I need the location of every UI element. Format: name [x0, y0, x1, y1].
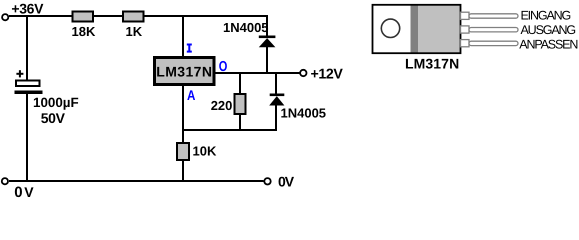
resistor R1 18K	[73, 12, 94, 22]
wire ground rail 0V	[9, 180, 264, 182]
svg-text:ANPASSEN: ANPASSEN	[519, 38, 578, 52]
svg-text:0V: 0V	[278, 174, 295, 190]
terminal 0V left	[2, 178, 8, 184]
svg-text:1N4005: 1N4005	[281, 106, 327, 121]
svg-text:10K: 10K	[193, 144, 217, 159]
TO-220 mounting hole	[381, 19, 399, 37]
op-amp U1 LM317N body	[155, 58, 215, 85]
svg-text:A: A	[187, 87, 195, 103]
wire branch to capacitor C1	[26, 15, 28, 80]
pin label I	[187, 44, 192, 53]
terminal +36V	[2, 14, 8, 20]
resistor R3 220	[235, 94, 246, 114]
svg-text:1000µF: 1000µF	[33, 95, 79, 110]
resistor R2 1K	[123, 12, 144, 22]
wire output rail +12V	[216, 72, 301, 74]
wire resistor R4 to ground rail	[182, 160, 184, 182]
svg-text:18K: 18K	[72, 24, 96, 39]
svg-text:LM317N: LM317N	[405, 55, 459, 71]
TO-220 package dark stripe	[411, 5, 419, 53]
TO-220 package outline	[373, 5, 461, 53]
capacitor C1 plus sign	[16, 70, 23, 77]
wire adjust rail	[182, 129, 277, 131]
wire top rail +36V	[9, 15, 268, 17]
wire branch to diode D2	[275, 72, 277, 94]
resistor R4 10K	[177, 143, 189, 160]
wire input to U1	[182, 15, 184, 57]
svg-text:EINGANG: EINGANG	[521, 9, 571, 23]
svg-text:1K: 1K	[126, 24, 143, 39]
svg-text:220: 220	[211, 98, 233, 113]
wire capacitor C1 to ground rail	[26, 94, 28, 181]
capacitor C1 bottom plate	[15, 91, 43, 95]
wire corner down to diode D1	[266, 15, 268, 36]
diode D2 1N4005	[269, 94, 284, 106]
svg-text:LM317N: LM317N	[156, 64, 212, 80]
TO-220 package gray body	[418, 5, 460, 53]
svg-text:1N4005: 1N4005	[223, 20, 269, 35]
TO-220 package body white tab	[373, 5, 461, 53]
wire diode D1 to output rail	[266, 47, 268, 74]
svg-text:+36V: +36V	[11, 0, 44, 16]
svg-text:50V: 50V	[41, 110, 66, 126]
terminal +12V	[300, 70, 306, 76]
wire U1 adjust pin down	[182, 85, 184, 143]
wire branch to resistor R3 220	[239, 72, 241, 94]
diode D1 1N4005	[259, 36, 276, 48]
svg-text:0: 0	[14, 184, 22, 198]
pin 1 EINGANG	[461, 12, 519, 19]
wire resistor R3 to adjust rail	[239, 114, 241, 131]
svg-text:AUSGANG: AUSGANG	[521, 23, 576, 37]
terminal 0V right	[264, 178, 270, 184]
capacitor C1 top plate	[16, 81, 40, 87]
svg-text:V: V	[24, 184, 34, 198]
pin 2 AUSGANG	[461, 26, 519, 33]
pin 3 ANPASSEN	[461, 40, 519, 47]
svg-text:+12V: +12V	[311, 67, 344, 83]
wire diode D2 to adjust rail	[275, 105, 277, 131]
